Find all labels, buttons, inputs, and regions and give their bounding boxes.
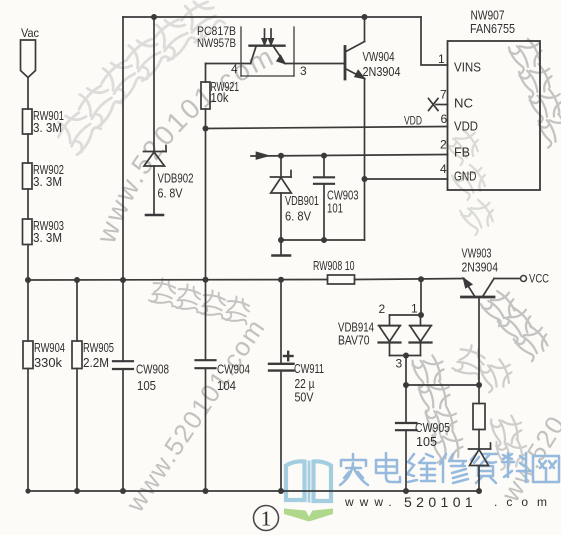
resistor RW904 (23, 280, 33, 491)
svg-text:NW957B: NW957B (197, 36, 236, 50)
resistor RW903 (23, 219, 33, 245)
junction mid rail RW905 (74, 277, 80, 283)
svg-text:101: 101 (327, 201, 343, 216)
svg-text:VW903: VW903 (462, 246, 492, 261)
junction FB line CW903 (321, 153, 327, 159)
node Vac terminal (21, 40, 36, 78)
svg-text:6. 8V: 6. 8V (285, 209, 311, 224)
svg-text:3: 3 (396, 357, 403, 371)
junction mid rail CW911 (278, 277, 284, 283)
svg-text:2: 2 (440, 138, 447, 152)
svg-text:330k: 330k (34, 355, 62, 370)
wire VW903 base down (478, 297, 480, 404)
svg-text:CW905: CW905 (415, 420, 450, 435)
logo book icon (286, 461, 331, 503)
junction bottom rail RW905 (74, 488, 80, 494)
capacitor CW908 (113, 280, 133, 491)
watermark CJK cluster mid left (149, 277, 252, 325)
wire top rail (123, 16, 421, 18)
svg-text:BAV70: BAV70 (338, 333, 370, 348)
watermark CJK faint column inside IC area (444, 124, 500, 235)
wire opto pin3 to VW904 base (285, 63, 345, 65)
svg-text:RW904: RW904 (34, 340, 65, 355)
svg-text:VDD: VDD (404, 114, 422, 128)
wire Vac to RW901 (27, 78, 29, 110)
svg-text:.com: .com (494, 495, 556, 509)
wire RW901 to RW902 (27, 134, 29, 163)
wire bottom rail (28, 490, 479, 492)
junction GND line emitter column (362, 176, 368, 182)
watermark CJK column top right (508, 34, 561, 148)
svg-text:4: 4 (231, 62, 238, 76)
junction bottom rail CW908 (120, 488, 126, 494)
optocoupler U901 PC817B box (241, 27, 294, 76)
resistor RW905 (72, 280, 82, 491)
svg-text:3. 3M: 3. 3M (33, 174, 62, 189)
watermark CJK pair right edge (480, 285, 554, 361)
resistor R bottom right (473, 404, 485, 430)
svg-text:7: 7 (440, 87, 447, 101)
wire lower FB rail (281, 239, 365, 241)
svg-text:1: 1 (261, 507, 272, 531)
svg-text:VDB901: VDB901 (285, 193, 319, 208)
svg-text:2N3904: 2N3904 (462, 260, 499, 275)
char liao (502, 453, 531, 482)
svg-text:105: 105 (137, 378, 156, 393)
char wang (533, 456, 559, 482)
wire left vertical from top rail to mid rail (122, 17, 124, 280)
junction bottom rail CW905 (403, 488, 409, 494)
svg-text:3: 3 (300, 64, 307, 78)
ground under VDB901 (273, 240, 291, 256)
junction lower FB rail CW903 (321, 237, 327, 243)
svg-text:2N3904: 2N3904 (363, 64, 401, 79)
junction mid rail RW904 (25, 277, 31, 283)
wire mid rail left of RW908 (28, 279, 328, 282)
wire resistor to zener (478, 430, 480, 450)
wire VDD line (206, 127, 448, 129)
svg-text:NC: NC (454, 96, 473, 111)
resistor RW908 (328, 275, 355, 284)
junction bottom rail zener column (476, 488, 482, 494)
wire GND pin line (365, 178, 448, 180)
svg-text:4: 4 (440, 162, 447, 176)
char dian (376, 453, 400, 482)
svg-text:CW908: CW908 (136, 362, 169, 377)
wire VW904 emitter down (364, 79, 366, 241)
junction bottom rail CW904 (203, 488, 209, 494)
wire RW902 to RW903 (27, 189, 29, 219)
junction mid rail CW904 (203, 277, 209, 283)
svg-text:6: 6 (441, 112, 448, 126)
svg-text:1: 1 (438, 52, 445, 66)
svg-text:6. 8V: 6. 8V (158, 186, 183, 201)
resistor RW901 (23, 109, 33, 134)
svg-text:VINS: VINS (454, 60, 481, 75)
wire VDB914 pin3 down (405, 356, 407, 386)
pin7 NC stub with X (429, 99, 448, 111)
diode VDB901 zener (271, 156, 292, 241)
transistor VW904 2N3904 (345, 17, 365, 79)
svg-text:1: 1 (411, 302, 418, 316)
svg-text:520101: 520101 (404, 494, 477, 510)
watermark CJK column mid right A (411, 352, 466, 463)
svg-text:10k: 10k (211, 90, 229, 105)
LOGO (254, 453, 560, 531)
wire mid rail right of RW908 (355, 279, 465, 280)
node VCC terminal (521, 276, 527, 282)
junction VDB914 pin1 (418, 312, 424, 318)
svg-text:CW911: CW911 (294, 361, 324, 376)
char xiu (440, 454, 468, 483)
resistor RW902 (23, 163, 33, 189)
wire pin3 node to VW903 base column (406, 384, 479, 386)
svg-text:FB: FB (454, 145, 470, 160)
diode VDB902 zener (144, 17, 167, 214)
svg-text:2.2M: 2.2M (83, 355, 109, 370)
logo chinese characters (340, 453, 559, 485)
wire RW903 to mid rail (27, 245, 29, 281)
logo url text (344, 494, 556, 510)
wire FB line with arrow (251, 153, 448, 159)
ground under VDB902 (146, 214, 163, 217)
svg-text:105: 105 (416, 434, 437, 449)
capacitor CW903 (314, 156, 334, 241)
junction VDB914 pin3 (403, 353, 409, 359)
svg-text:RW908 10: RW908 10 (313, 258, 355, 273)
svg-text:2: 2 (379, 302, 386, 316)
wire IC pin1 VINS (421, 17, 448, 65)
junction CW905 top (403, 382, 409, 388)
wire opto pin4 (206, 63, 251, 65)
IC U NW907 FAN6755 box (448, 41, 541, 190)
char wei (407, 454, 435, 482)
label circled 1 figure number (254, 506, 279, 531)
svg-text:104: 104 (217, 378, 236, 393)
svg-text:VW904: VW904 (363, 49, 395, 64)
capacitor CW905 (396, 385, 417, 491)
svg-text:GND: GND (454, 169, 477, 184)
char zi (471, 454, 497, 483)
junction lower FB rail VDB901 (278, 237, 284, 243)
svg-text:FAN6755: FAN6755 (470, 21, 515, 36)
svg-text:3. 3M: 3. 3M (33, 120, 62, 135)
char jia (340, 454, 368, 485)
watermark www.520101.com upper left arc (114, 52, 304, 245)
svg-text:VDD: VDD (454, 119, 478, 134)
watermark CJK column mid right B (452, 342, 530, 470)
capacitor CW911 electrolytic (269, 280, 294, 492)
junction top rail VDB902 (151, 14, 157, 20)
junction bottom rail RW904 (25, 488, 30, 493)
logo green ribbon (284, 509, 333, 522)
svg-text:www.: www. (344, 495, 398, 509)
junction mid rail VDB914 (418, 276, 424, 282)
diode zener bottom right (469, 443, 491, 491)
svg-text:RW905: RW905 (83, 340, 114, 355)
junction VDD line RW921 (203, 126, 209, 132)
svg-text:50V: 50V (295, 390, 314, 405)
resistor RW921 (201, 64, 210, 129)
svg-text:CW904: CW904 (217, 362, 250, 377)
svg-text:VDB902: VDB902 (158, 171, 194, 186)
junction top rail VW904 collector (362, 14, 368, 20)
svg-text:VCC: VCC (529, 272, 549, 286)
optocoupler phototransistor symbol (250, 29, 286, 64)
capacitor CW904 (196, 129, 216, 492)
watermark CJK left arc (50, 0, 225, 156)
svg-text:3. 3M: 3. 3M (33, 230, 62, 245)
diode VDB914 BAV70 dual (379, 280, 432, 356)
junction FB line VDB901 (278, 153, 284, 159)
junction VW903 base column (476, 382, 482, 388)
junction bottom rail CW911 (278, 488, 284, 494)
svg-text:Vac: Vac (21, 26, 39, 40)
transistor VW903 2N3904 (462, 279, 521, 298)
junction mid rail CW908 (120, 277, 126, 283)
